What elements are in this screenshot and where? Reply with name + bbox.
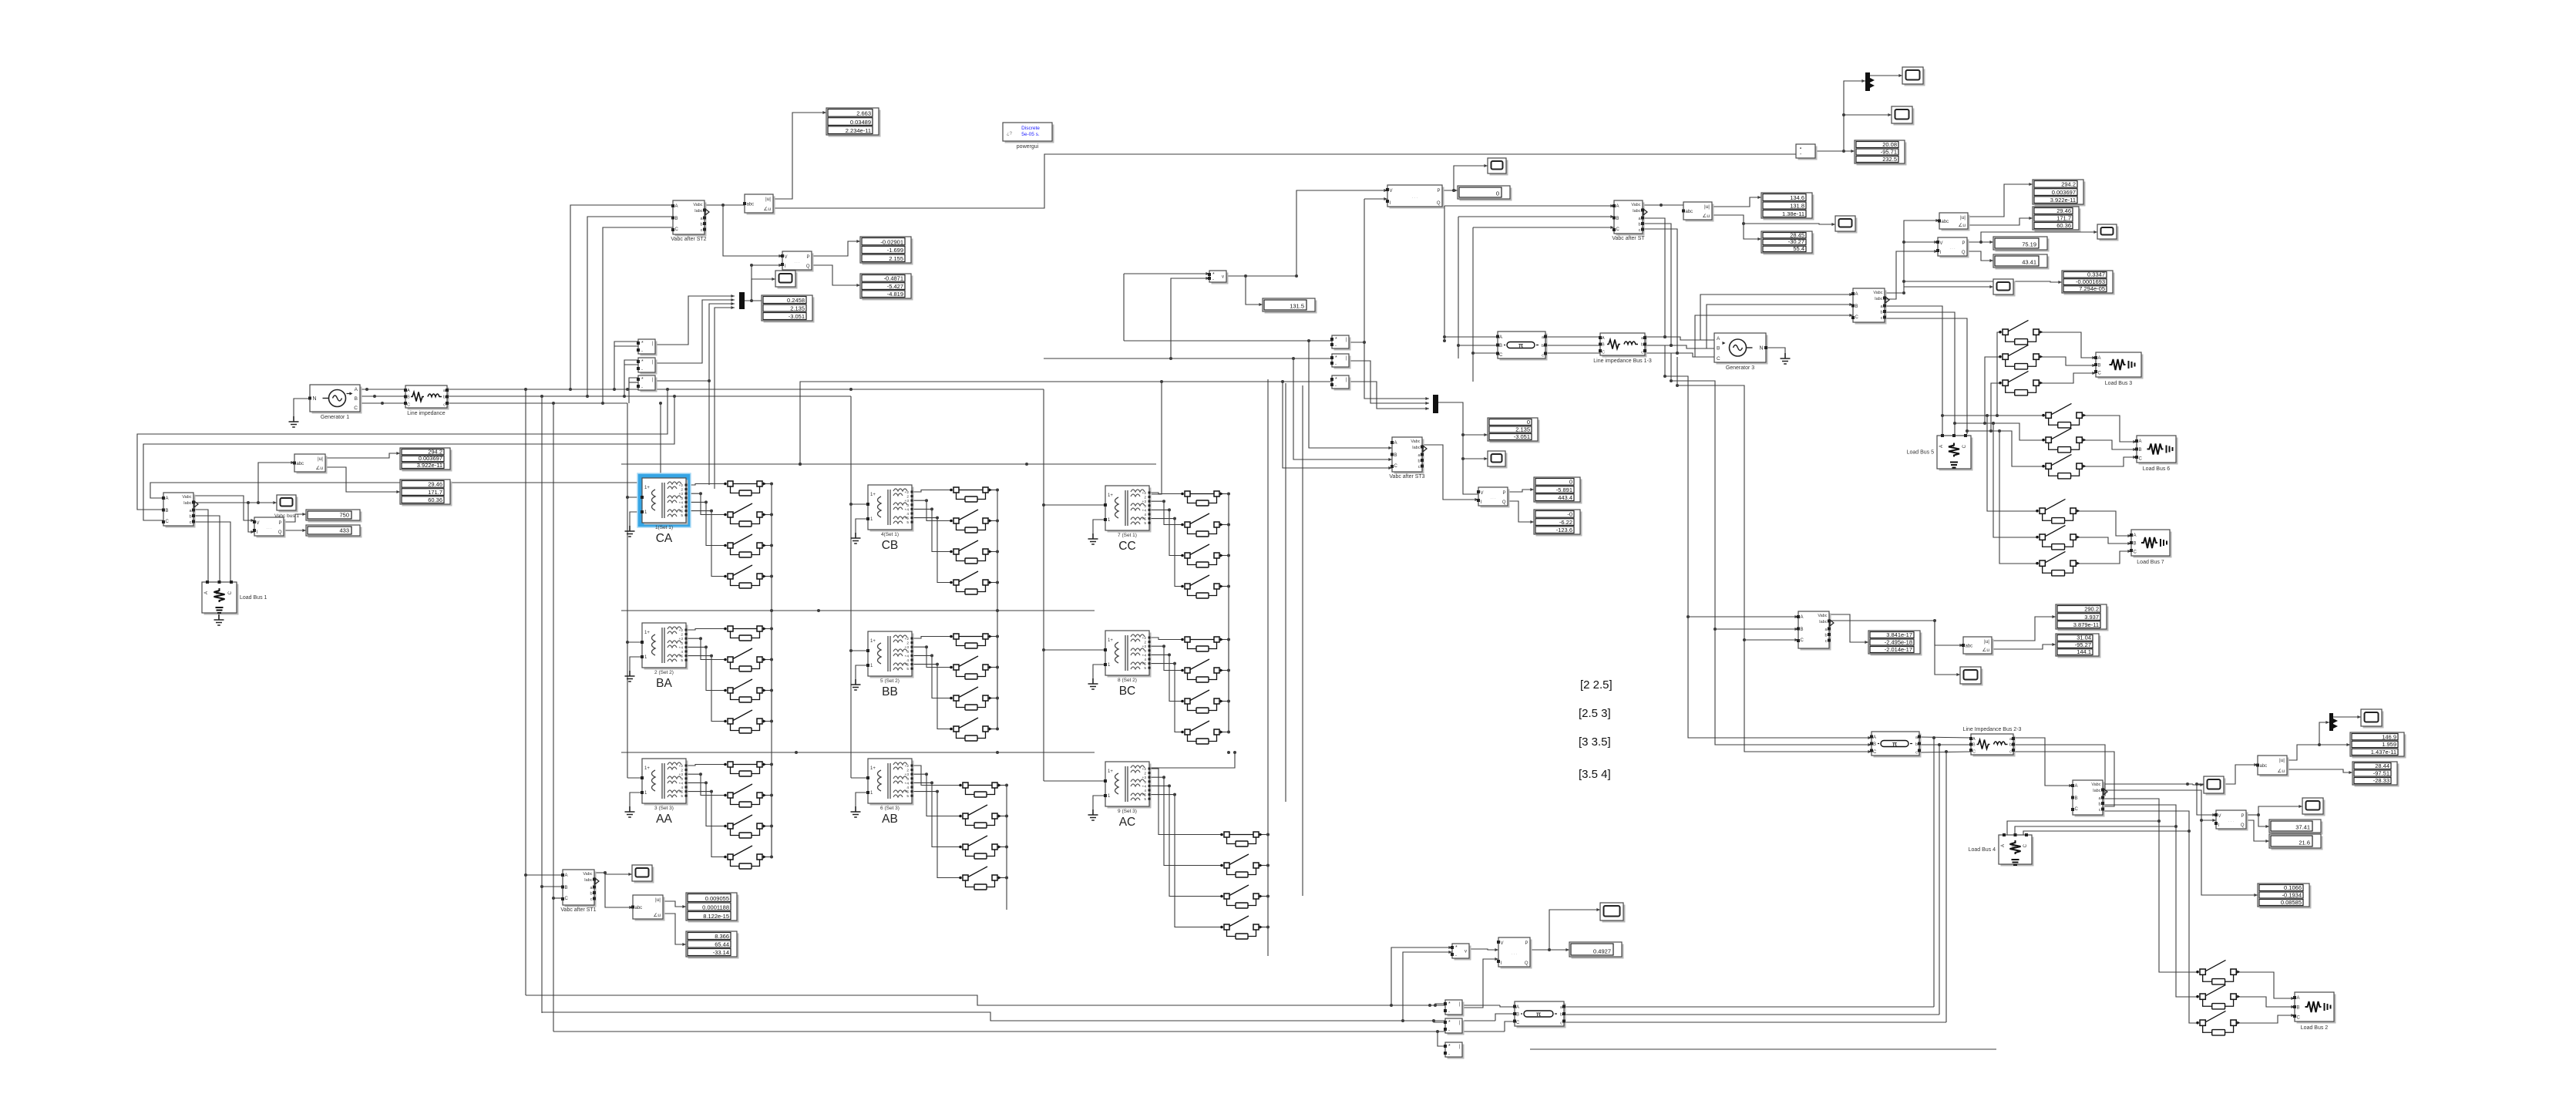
wire — [1444, 205, 1614, 207]
wire — [1643, 204, 1683, 206]
svg-text:2: 2 — [681, 769, 683, 773]
svg-text:Vabc after ST1: Vabc after ST1 — [560, 907, 596, 913]
svg-text:C: C — [354, 406, 358, 411]
wire — [1688, 616, 1798, 618]
svg-text:3: 3 — [906, 650, 909, 655]
product block 5 — [1330, 354, 1351, 369]
svg-text:C: C — [2139, 457, 2143, 462]
wire — [1044, 358, 1333, 359]
display 28.44 / -97.51 / -28.33 — [2352, 762, 2399, 787]
svg-text:-28.33: -28.33 — [2373, 777, 2389, 784]
three-phase measurement "Vabc after ST1" — [560, 870, 599, 913]
wire — [614, 345, 638, 347]
svg-text:8.122e-15: 8.122e-15 — [703, 913, 729, 920]
wire — [752, 265, 782, 301]
svg-text:+3: +3 — [679, 492, 684, 496]
wire — [1815, 150, 1855, 152]
wire — [1219, 555, 1229, 557]
breaker 3-3 — [724, 815, 766, 838]
wire — [762, 764, 772, 766]
wire — [1006, 786, 1007, 878]
breaker 5-1 — [950, 634, 992, 648]
svg-text:3: 3 — [906, 503, 909, 508]
abc magnitude-angle block (bus 2-3) — [2256, 756, 2289, 777]
svg-text:A: A — [166, 496, 169, 501]
svg-text:CB: CB — [882, 539, 899, 552]
abc magnitude-angle block (ST1) — [631, 895, 665, 921]
svg-text:5: 5 — [906, 667, 909, 671]
svg-text:C: C — [1873, 750, 1877, 755]
multi-winding transformer 7 (Set 1) (CC) — [1104, 486, 1152, 553]
load bus 6 block — [2135, 436, 2178, 472]
wire — [603, 227, 673, 403]
svg-text:443.4: 443.4 — [1558, 494, 1572, 501]
svg-text:Load Bus 3: Load Bus 3 — [2105, 381, 2133, 386]
svg-text:C: C — [1855, 315, 1859, 320]
wire — [1438, 402, 1478, 494]
wire — [2193, 784, 2204, 785]
svg-text:|u|: |u| — [318, 456, 323, 462]
pi section line (bottom bus) — [1513, 1001, 1566, 1028]
wire — [773, 113, 826, 199]
dot product block 2 (*v) — [1451, 944, 1471, 961]
wire — [2039, 332, 2096, 358]
scope (ST P) — [1488, 158, 1508, 176]
svg-text:0.003697: 0.003697 — [419, 455, 442, 462]
multi-winding transformer 8 (Set 2) (BC) — [1104, 631, 1152, 698]
svg-text:c: c — [1560, 1021, 1562, 1026]
svg-text:C: C — [407, 403, 410, 408]
switch LB6-C — [2042, 454, 2086, 478]
wire — [1219, 524, 1229, 526]
wire — [553, 897, 563, 899]
wire — [1564, 1014, 1939, 1015]
product block 3 (ST2 power calc) — [637, 375, 657, 392]
three-phase measurement block (bus 2-3) — [2071, 780, 2107, 817]
breaker 7-3 — [1181, 544, 1223, 567]
display 8.366 / 65.44 / -33.14 — [686, 931, 739, 959]
wire — [1942, 415, 2046, 416]
svg-text:Q: Q — [1962, 251, 1966, 255]
svg-text:C: C — [2297, 1016, 2301, 1021]
wire — [1228, 494, 1229, 587]
svg-text:A: A — [1616, 204, 1619, 209]
svg-text:2: 2 — [1144, 496, 1146, 500]
wire — [912, 637, 950, 639]
svg-text:3: 3 — [1144, 649, 1146, 654]
svg-text:v: v — [1222, 275, 1224, 280]
wire — [663, 914, 686, 944]
wire — [627, 641, 642, 643]
svg-text:Line impedance: Line impedance — [407, 411, 446, 416]
svg-text:Iabc: Iabc — [1819, 620, 1828, 624]
svg-text:5: 5 — [1144, 666, 1146, 671]
wire — [1997, 332, 1999, 416]
svg-text:A: A — [1499, 335, 1502, 340]
wire — [1643, 218, 1665, 337]
wire — [1093, 520, 1105, 533]
dot product block (*v) — [1208, 271, 1229, 284]
svg-text:|u|: |u| — [2279, 758, 2285, 763]
wire — [2082, 440, 2137, 449]
svg-text:C: C — [1972, 750, 1976, 755]
svg-text:-: - — [641, 385, 643, 390]
wire — [771, 484, 772, 577]
svg-text:V: V — [1501, 941, 1504, 946]
wire — [1967, 431, 2046, 466]
wire — [447, 395, 851, 397]
wire — [1564, 1006, 1934, 1008]
wire — [1564, 1021, 1946, 1023]
svg-text:7 (Set 1): 7 (Set 1) — [1118, 533, 1137, 538]
svg-text:A: A — [1602, 336, 1605, 341]
svg-text:-0.0001693: -0.0001693 — [2076, 278, 2105, 285]
wire — [360, 402, 405, 404]
breaker 1-4 — [724, 565, 766, 588]
svg-text:750: 750 — [339, 512, 349, 519]
svg-text:B: B — [1499, 344, 1502, 348]
wire — [1473, 352, 1498, 354]
ground for transformer 7 (Set 1) — [1088, 533, 1098, 544]
svg-text:A: A — [1801, 615, 1804, 620]
wire — [1700, 294, 1853, 340]
svg-text:. . .: . . . — [795, 260, 800, 264]
display 750 — [306, 510, 362, 523]
wire — [541, 396, 543, 1013]
wire — [1677, 385, 1871, 752]
wire — [686, 629, 725, 631]
breaker 4-2 — [950, 510, 992, 533]
scope (top right 1) — [1902, 67, 1925, 86]
wire — [686, 638, 725, 659]
wire — [655, 300, 735, 363]
svg-text:60.36: 60.36 — [2056, 222, 2071, 229]
svg-text:A: A — [2139, 439, 2142, 444]
wire — [1285, 383, 1286, 802]
breaker 5-4 — [950, 718, 992, 741]
wire — [1149, 752, 1235, 768]
wire — [1044, 649, 1105, 651]
svg-text:4: 4 — [681, 786, 683, 790]
wire — [1999, 431, 2036, 564]
wire — [1744, 639, 1798, 641]
wire — [1664, 345, 1666, 376]
svg-text:4: 4 — [1144, 789, 1146, 793]
svg-text:Vabc after ST3: Vabc after ST3 — [1389, 474, 1424, 480]
abc magnitude-angle block (ST) — [1682, 202, 1714, 222]
wire — [773, 154, 1796, 208]
wire — [1967, 241, 1993, 243]
svg-text:6 (Set 3): 6 (Set 3) — [880, 806, 900, 811]
svg-text:C: C — [228, 591, 233, 594]
wire — [997, 490, 998, 583]
wire — [1549, 910, 1600, 950]
breaker 2-1 — [724, 626, 766, 641]
svg-text:A: A — [204, 591, 209, 594]
wire — [2007, 821, 2159, 835]
svg-text:B: B — [1394, 453, 1397, 458]
wire — [1933, 738, 1935, 1007]
load bus 1 block — [202, 581, 267, 615]
wire — [447, 389, 1044, 390]
svg-text:[2.5 3]: [2.5 3] — [1579, 707, 1611, 720]
product block 9 (bottom) — [1444, 1042, 1465, 1059]
wire — [708, 381, 710, 485]
wire — [2333, 716, 2361, 718]
svg-text:[2 2.5]: [2 2.5] — [1580, 678, 1613, 692]
svg-text:Q: Q — [278, 530, 282, 535]
svg-text:-3.051: -3.051 — [789, 313, 805, 320]
svg-text:+2: +2 — [905, 490, 910, 495]
wire — [542, 1012, 1495, 1021]
display 31.04 / -95.27 / 144.1 — [2056, 634, 2101, 658]
wire — [1043, 389, 1044, 781]
svg-text:3 (Set 3): 3 (Set 3) — [654, 806, 674, 811]
ground for transformer 8 (Set 2) — [1088, 678, 1098, 689]
svg-text:29.46: 29.46 — [428, 481, 442, 488]
display 20.08 / -95.71 / 232.5 — [1855, 140, 1907, 166]
svg-text:A: A — [1972, 737, 1976, 742]
svg-text:2.663: 2.663 — [856, 110, 871, 117]
wire — [745, 300, 762, 301]
svg-text:*: * — [641, 359, 644, 365]
wire — [1259, 927, 1268, 928]
wire — [655, 304, 735, 381]
svg-text:-5.427: -5.427 — [887, 283, 903, 290]
wire — [1309, 341, 1392, 448]
wire — [1458, 217, 1459, 358]
svg-text:A: A — [1873, 735, 1876, 740]
wire — [997, 785, 1007, 786]
svg-text:171.7: 171.7 — [428, 489, 442, 496]
svg-text:-4.819: -4.819 — [887, 291, 903, 298]
multi-winding transformer 4(Set 1) (CB) — [866, 485, 914, 552]
wire — [2287, 745, 2350, 760]
svg-text:[3 3.5]: [3 3.5] — [1579, 735, 1611, 749]
svg-text:-33.14: -33.14 — [713, 949, 729, 956]
svg-text:3: 3 — [681, 777, 683, 782]
wire — [2258, 815, 2269, 826]
wire — [2319, 722, 2329, 745]
breaker 3-2 — [724, 784, 766, 807]
svg-text:+5: +5 — [905, 517, 910, 521]
wire — [1645, 345, 1714, 348]
wire — [1505, 1021, 1515, 1032]
svg-text:Vabc: Vabc — [1411, 439, 1420, 444]
wire — [1267, 927, 1269, 956]
wire — [1226, 275, 1246, 277]
breaker 6-1 — [959, 782, 1001, 797]
svg-text:BB: BB — [882, 685, 898, 698]
wire — [294, 399, 310, 416]
svg-text:-: - — [1212, 278, 1214, 282]
svg-text:|u|: |u| — [765, 197, 771, 202]
wire — [1149, 769, 1221, 835]
svg-text:*: * — [641, 377, 644, 382]
wire — [1364, 198, 1387, 200]
scope (top right 2) — [1892, 106, 1915, 126]
three-phase measurement "Vabc after ST3" — [1389, 437, 1427, 480]
wire — [553, 403, 554, 1032]
svg-text:A: A — [407, 389, 410, 393]
wire — [1267, 379, 1269, 834]
switch LB6-B — [2042, 428, 2086, 452]
wire — [2236, 972, 2295, 998]
breaker 9-1 — [1220, 832, 1263, 846]
wire — [912, 509, 950, 551]
wire — [762, 857, 772, 858]
svg-text:abc: abc — [1686, 210, 1693, 214]
wire — [1987, 416, 2036, 511]
wire — [1670, 353, 1672, 381]
abc to magnitude-angle block — [293, 454, 328, 474]
wire — [2039, 357, 2096, 365]
svg-text:1.437e-11: 1.437e-11 — [2371, 749, 2396, 756]
svg-text:4: 4 — [906, 786, 909, 790]
wire — [912, 500, 950, 520]
wire — [1444, 206, 1445, 341]
wire — [627, 403, 628, 778]
wire — [762, 545, 772, 547]
wire — [2246, 820, 2269, 841]
svg-text:Iabc: Iabc — [183, 501, 192, 506]
svg-text:C: C — [2098, 372, 2102, 376]
svg-text:+4: +4 — [905, 507, 910, 512]
svg-text:4: 4 — [681, 505, 683, 510]
svg-text:b: b — [2009, 743, 2012, 748]
svg-text:. . .: . . . — [1950, 246, 1956, 251]
svg-text:2 (Set 2): 2 (Set 2) — [654, 670, 674, 675]
svg-text:Vabc: Vabc — [2091, 782, 2100, 787]
wire — [2103, 790, 2216, 820]
wire — [258, 463, 294, 503]
display 146.9 / 1.959 / 1.437e-11 — [2350, 732, 2406, 759]
display 0.009055 / 0.0001188 / 8.122e-15 — [686, 893, 739, 923]
wire — [1545, 352, 1600, 354]
svg-text:-123.6: -123.6 — [1556, 527, 1572, 533]
svg-text:A: A — [1394, 441, 1397, 446]
wire — [997, 582, 998, 729]
wire — [325, 453, 400, 458]
wire — [2013, 745, 2105, 796]
svg-text:5 (Set 2): 5 (Set 2) — [880, 678, 900, 684]
scope (bottom) — [1600, 903, 1626, 923]
svg-text:5: 5 — [681, 513, 683, 518]
svg-text:2: 2 — [681, 633, 683, 638]
wire — [1149, 493, 1182, 494]
svg-text:2.135: 2.135 — [1515, 426, 1530, 433]
breaker 1-2 — [724, 503, 766, 527]
svg-text:V: V — [257, 521, 260, 526]
display 0.4927 — [1569, 942, 1624, 959]
svg-text:+3: +3 — [1142, 645, 1147, 649]
breaker 8-3 — [1181, 690, 1223, 713]
svg-text:*: * — [1455, 945, 1458, 951]
wire — [248, 503, 254, 532]
svg-text:V: V — [1390, 189, 1393, 194]
display 433 — [306, 525, 362, 538]
abc magnitude-angle block (bus 2) — [1962, 637, 1994, 656]
wire — [1981, 232, 2097, 242]
svg-text:[3.5 4]: [3.5 4] — [1579, 768, 1611, 781]
breaker 3-1 — [724, 762, 766, 776]
svg-text:+3: +3 — [679, 772, 684, 777]
svg-text:Load Bus 2: Load Bus 2 — [2301, 1025, 2329, 1031]
wire — [614, 342, 638, 389]
svg-text:v: v — [1465, 950, 1467, 954]
svg-text:0: 0 — [1527, 419, 1530, 426]
wire — [1968, 184, 2033, 217]
svg-text:+4: +4 — [905, 781, 910, 786]
wire — [912, 518, 950, 583]
wire — [663, 901, 686, 907]
wire — [856, 665, 868, 679]
wire — [1296, 190, 1387, 276]
multi-winding transformer 6 (Set 3) (AB) — [866, 759, 914, 826]
wire — [771, 629, 772, 722]
svg-text:2: 2 — [681, 488, 683, 493]
svg-text:C: C — [2075, 807, 2079, 812]
wire — [193, 516, 220, 581]
wire — [1006, 877, 1007, 910]
svg-text:+2: +2 — [905, 764, 910, 769]
display 2.663 / 0.03489 / 2.234e-11 — [826, 108, 881, 137]
wire — [1904, 286, 1993, 288]
wire — [1712, 197, 1761, 207]
svg-text:. . .: . . . — [1412, 195, 1417, 200]
svg-text:+3: +3 — [905, 772, 910, 777]
wire — [1293, 358, 1392, 459]
svg-text:+5: +5 — [679, 510, 684, 514]
svg-text:b: b — [1542, 344, 1544, 348]
svg-text:Load Bus 6: Load Bus 6 — [2143, 466, 2171, 472]
svg-text:¿?: ¿? — [1007, 132, 1013, 136]
svg-text:-3.051: -3.051 — [1514, 433, 1530, 440]
svg-text:1+: 1+ — [644, 486, 650, 490]
multi-winding transformer 1(Set 1) (CA) — [637, 473, 691, 545]
svg-text:c: c — [1881, 316, 1883, 321]
breaker 2-3 — [724, 679, 766, 702]
svg-text:3: 3 — [681, 496, 683, 501]
ground for transformer 6 (Set 3) — [851, 806, 861, 817]
wire — [2103, 799, 2197, 972]
wire — [629, 378, 638, 403]
wire — [630, 657, 642, 671]
wire — [630, 512, 642, 526]
display 37.41 — [2269, 820, 2323, 835]
wire — [2103, 783, 2193, 785]
svg-text:1+: 1+ — [870, 766, 876, 771]
wire — [1985, 357, 1999, 423]
breaker 8-1 — [1181, 637, 1223, 651]
svg-text:*: * — [1212, 272, 1215, 278]
wire — [1545, 336, 1600, 338]
wire — [1919, 737, 1971, 738]
display 21.6 — [2269, 834, 2323, 850]
svg-text:Q: Q — [2241, 823, 2245, 828]
breaker 8-4 — [1181, 721, 1223, 744]
wire — [912, 665, 950, 729]
wire — [762, 795, 772, 796]
scope (bus 2-3 P) — [2302, 798, 2325, 816]
display 290.2 / 3.937 / 3.879e-11 — [2056, 604, 2109, 631]
scope (bus 2) — [1960, 667, 1983, 686]
svg-text:B: B — [2297, 1006, 2300, 1011]
wire — [325, 467, 400, 492]
wire — [526, 995, 1500, 1005]
multi-winding transformer 3 (Set 3) (AA) — [641, 759, 688, 826]
wire — [1259, 834, 1268, 836]
